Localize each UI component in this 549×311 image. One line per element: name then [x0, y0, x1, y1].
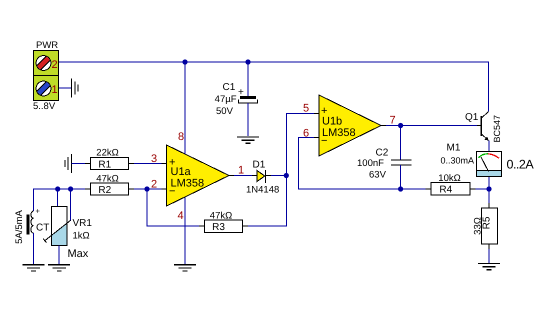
svg-text:+: + [238, 87, 244, 98]
wire R3 to diode node [248, 114, 314, 227]
ground (below VR1) [48, 265, 70, 271]
wire R1 to U1a pin3 [134, 163, 162, 165]
svg-text:R4: R4 [439, 185, 452, 196]
wire R5 to ground [488, 249, 490, 263]
node top rail / pin8 junction [182, 59, 187, 64]
transformer CT [14, 207, 50, 244]
node C2 bottom junction [398, 186, 403, 191]
resistor R3 47k [199, 210, 248, 233]
capacitor C1 [215, 62, 258, 136]
node VR1 top junction [55, 186, 60, 191]
svg-text:47kΩ: 47kΩ [210, 210, 232, 221]
svg-text:5..8V: 5..8V [33, 101, 56, 112]
wire PWR pin1 to ground [59, 87, 71, 89]
wire R4 to meter node [476, 188, 490, 190]
svg-text:4: 4 [178, 210, 184, 222]
svg-text:C2: C2 [376, 148, 389, 159]
node R3 feedback junction [144, 186, 149, 191]
svg-text:7: 7 [390, 115, 396, 127]
resistor R5 33 [473, 203, 498, 249]
wire U1a out to D1 [234, 175, 252, 177]
svg-text:22kΩ: 22kΩ [96, 148, 118, 159]
wire D1 to node [271, 175, 286, 177]
wire VR1 to ground [58, 246, 60, 265]
diode D1 1N4148 [246, 160, 279, 196]
wire R2 to U1a pin2 [134, 188, 162, 190]
wire CT to ground [33, 233, 35, 264]
ground (below R5) [478, 264, 500, 270]
resistor R2 47k [85, 174, 134, 196]
resistor R4 10k [426, 173, 476, 196]
resistor R1 22k [85, 148, 134, 171]
node VR1 wiper junction [68, 186, 73, 191]
svg-text:D1: D1 [253, 160, 266, 171]
svg-text:Max: Max [68, 248, 89, 260]
wire left net to R2 [34, 189, 86, 211]
svg-text:1N4148: 1N4148 [246, 185, 279, 196]
connector PWR [33, 40, 59, 112]
pin 2 stub [151, 179, 167, 191]
ground (below C1) [237, 137, 259, 143]
svg-text:1: 1 [238, 165, 244, 177]
meter M1 [441, 143, 535, 177]
node top rail / C1 junction [245, 59, 250, 64]
op-amp U1a [167, 145, 230, 206]
wire junction to VR1 top [57, 189, 59, 207]
svg-text:2: 2 [52, 59, 58, 71]
svg-text:M1: M1 [447, 143, 461, 154]
svg-text:100nF: 100nF [357, 158, 384, 169]
pin 3 stub [151, 153, 167, 165]
svg-text:63V: 63V [369, 170, 387, 181]
svg-text:5A/5mA: 5A/5mA [14, 209, 25, 243]
svg-text:CT: CT [36, 223, 49, 234]
svg-text:8: 8 [178, 131, 184, 143]
ground (left of R1) [65, 154, 72, 173]
svg-text:6: 6 [303, 128, 309, 140]
ground (below CT) [23, 265, 45, 271]
node diode output [284, 173, 289, 178]
output stub U1b pin7 [381, 115, 396, 127]
svg-text:LM358: LM358 [171, 178, 205, 190]
node U1b output [398, 123, 403, 128]
svg-text:0..30mA: 0..30mA [441, 156, 475, 166]
svg-text:10kΩ: 10kΩ [438, 173, 460, 184]
pin 6 stub [303, 128, 319, 140]
svg-text:Q1: Q1 [465, 112, 479, 123]
wire U1b out to Q1 base [386, 125, 477, 127]
transistor Q1 BC547 [465, 112, 502, 143]
svg-text:BC547: BC547 [492, 115, 502, 143]
node meter/R4/R5 junction [486, 186, 491, 191]
output stub U1a pin1 [229, 165, 244, 177]
svg-text:50V: 50V [216, 106, 234, 117]
wire meter to node [488, 177, 490, 203]
svg-text:+: + [36, 207, 41, 216]
svg-text:R2: R2 [98, 185, 111, 196]
svg-text:5: 5 [303, 103, 309, 115]
svg-text:3: 3 [151, 153, 157, 165]
svg-text:33Ω: 33Ω [473, 217, 484, 235]
svg-text:0..2A: 0..2A [507, 158, 535, 172]
ground (right of PWR) [72, 79, 79, 98]
wire pin6 feedback [299, 138, 401, 190]
capacitor C2 [357, 126, 412, 190]
wire Q1 emitter to meter [488, 141, 490, 152]
svg-text:47kΩ: 47kΩ [96, 174, 118, 185]
svg-text:R3: R3 [212, 222, 225, 233]
wire feedback drop to R3 [147, 189, 199, 226]
svg-text:C1: C1 [223, 82, 236, 93]
wire ground to R1 [72, 163, 87, 165]
svg-text:1kΩ: 1kΩ [73, 231, 90, 242]
svg-text:PWR: PWR [36, 40, 58, 51]
svg-text:2: 2 [151, 179, 157, 191]
op-amp U1b [319, 95, 381, 156]
svg-text:LM358: LM358 [322, 127, 356, 139]
svg-text:R1: R1 [98, 159, 111, 170]
ground (below U1a pin4) [174, 265, 196, 271]
wire pin8 [178, 62, 185, 154]
wire pin4 to ground [178, 198, 186, 265]
svg-text:1: 1 [52, 84, 58, 96]
svg-text:VR1: VR1 [73, 218, 93, 229]
pin 5 stub [303, 103, 319, 115]
potentiometer VR1 1k [43, 207, 92, 261]
svg-text:U1b: U1b [322, 116, 342, 128]
wire junction to VR1 wiper [70, 189, 72, 220]
wire C2 node to R4 [401, 188, 426, 190]
svg-text:47µF: 47µF [215, 94, 237, 105]
svg-text:U1a: U1a [171, 166, 192, 178]
wire VCC top rail [59, 62, 489, 112]
